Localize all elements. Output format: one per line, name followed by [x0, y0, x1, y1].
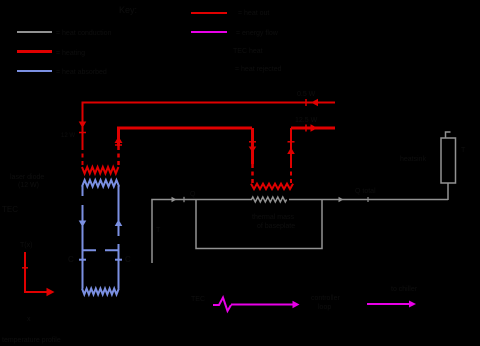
svg-text:of baseplate: of baseplate — [257, 223, 295, 230]
svg-text:Key:: Key: — [119, 5, 137, 15]
wire: red thick line B left segment — [117, 127, 252, 130]
svg-text:laser diode: laser diode — [10, 174, 44, 181]
svg-text:T: T — [461, 147, 466, 154]
wire: red vertical V2 (x=118.5 from line B down) — [117, 128, 120, 146]
wire: blue vertical right of loop — [118, 186, 120, 289]
svg-text:12.5 W: 12.5 W — [295, 117, 318, 124]
wire: red vertical V4 (x=291 down from line B) — [290, 128, 292, 164]
arrowhead down on blue left vertical — [79, 221, 87, 228]
svg-text:Q: Q — [190, 191, 196, 198]
resistor R1 red zigzag (left pair) — [82, 167, 118, 174]
resistor R4 blue zigzag (bottom of blue loop) — [82, 289, 119, 295]
svg-text:thermal mass: thermal mass — [252, 214, 295, 221]
svg-text:Q total: Q total — [355, 188, 376, 195]
red axis glyph vertical (temperature axis) — [24, 252, 26, 293]
dashed blue node line across loop — [83, 249, 119, 251]
resistor R3 blue zigzag (top of blue loop) — [82, 180, 119, 187]
arrowhead right magenta 1 — [293, 301, 300, 308]
wire: red top line A (node TEC-hot to right) — [82, 102, 336, 104]
red axis glyph horizontal with arrow — [25, 291, 49, 293]
magenta arrow 2 — [367, 303, 410, 305]
svg-text:= heat rejected: = heat rejected — [235, 66, 282, 73]
tick gray on main wire right — [367, 197, 369, 202]
wire: red thick line B right segment — [291, 127, 335, 130]
wire: red vertical V2 dashed lower part — [117, 146, 120, 167]
svg-text:loop: loop — [318, 304, 331, 311]
arrowhead right gray on main wire right — [339, 197, 344, 202]
legend blue line (cooling) — [17, 70, 52, 72]
resistor R2 red zigzag (right pair) — [251, 184, 293, 189]
capacitor plate tick on blue right vertical — [115, 259, 122, 261]
resistor R5 gray zigzag on main wire — [252, 197, 287, 202]
svg-text:T: T — [156, 227, 161, 234]
svg-text:heatsink: heatsink — [400, 156, 427, 163]
legend thin red line (waste heat) — [191, 12, 227, 14]
heatsink box — [441, 138, 456, 183]
svg-text:= energy flow: = energy flow — [236, 30, 279, 37]
svg-text:TEC: TEC — [2, 205, 18, 214]
legend magenta line (signal) — [191, 31, 227, 33]
tick gray on main wire left — [183, 197, 185, 202]
wire: red vertical V4 dashed lower part — [290, 164, 292, 184]
magenta pulse glyph — [213, 298, 231, 312]
wire: red vertical V3 (x=252.5 down from line B) — [251, 128, 254, 164]
wire: red vertical V1 dashed lower part — [82, 146, 84, 167]
arrowhead right on axis — [47, 288, 55, 296]
tick on line B right — [305, 125, 307, 132]
arrowhead right magenta 2 — [409, 301, 416, 308]
svg-text:temperature profile: temperature profile — [2, 337, 61, 344]
svg-text:C: C — [68, 255, 74, 264]
svg-text:12 W: 12 W — [61, 133, 75, 139]
arrowhead right gray on main wire left — [172, 197, 177, 202]
legend gray line (conduction path) — [17, 31, 52, 33]
wire: gray riser to heatsink box — [447, 183, 449, 200]
arrowhead down on V3 — [249, 147, 257, 153]
svg-text:= heat conduction: = heat conduction — [56, 30, 112, 37]
wire: gray main horizontal right section — [289, 199, 448, 201]
svg-text:C: C — [125, 255, 131, 264]
wire: red vertical V1 (x=82 down from line A) — [82, 102, 84, 147]
arrowhead up on V2 — [115, 137, 123, 144]
heatsink top stub — [446, 132, 451, 138]
arrowhead right on line B — [311, 124, 318, 132]
wire: gray stub vertical (node T_c) — [151, 200, 153, 263]
wire: gray lower loop (thermal mass box) — [196, 200, 322, 249]
svg-text:T(x): T(x) — [20, 242, 32, 249]
tick on V4 — [288, 141, 295, 143]
svg-text:= heat out: = heat out — [238, 10, 269, 17]
arrowhead up on V4 — [287, 148, 295, 155]
capacitor plate tick on blue left vertical — [79, 259, 86, 261]
svg-text:TEC heat: TEC heat — [233, 48, 263, 55]
arrowhead left on line A — [311, 99, 318, 107]
tick on V1 — [79, 132, 86, 134]
wire: gray main horizontal left section — [151, 199, 252, 201]
arrowhead up on blue right vertical — [115, 220, 123, 227]
tick on V3 — [249, 141, 256, 143]
wire: blue vertical left of loop — [82, 186, 84, 289]
arrowhead down on V1 — [79, 122, 87, 129]
magenta arrow 1 — [231, 304, 293, 306]
tick on line A — [305, 99, 307, 106]
svg-text:0.5 W: 0.5 W — [297, 91, 316, 98]
svg-text:= heating: = heating — [56, 50, 85, 57]
svg-text:controller: controller — [311, 295, 340, 302]
tick on axis vertical — [22, 267, 28, 269]
legend thick red line (heat flow) — [17, 50, 52, 53]
wire: red vertical V3 dashed lower part — [251, 164, 254, 184]
svg-text:(12 W): (12 W) — [18, 182, 39, 189]
svg-text:TEC: TEC — [191, 296, 205, 303]
tick on V2 — [115, 144, 122, 146]
svg-text:x: x — [27, 316, 31, 323]
svg-text:to chiller: to chiller — [391, 286, 418, 293]
svg-text:= heat absorbed: = heat absorbed — [56, 69, 107, 76]
